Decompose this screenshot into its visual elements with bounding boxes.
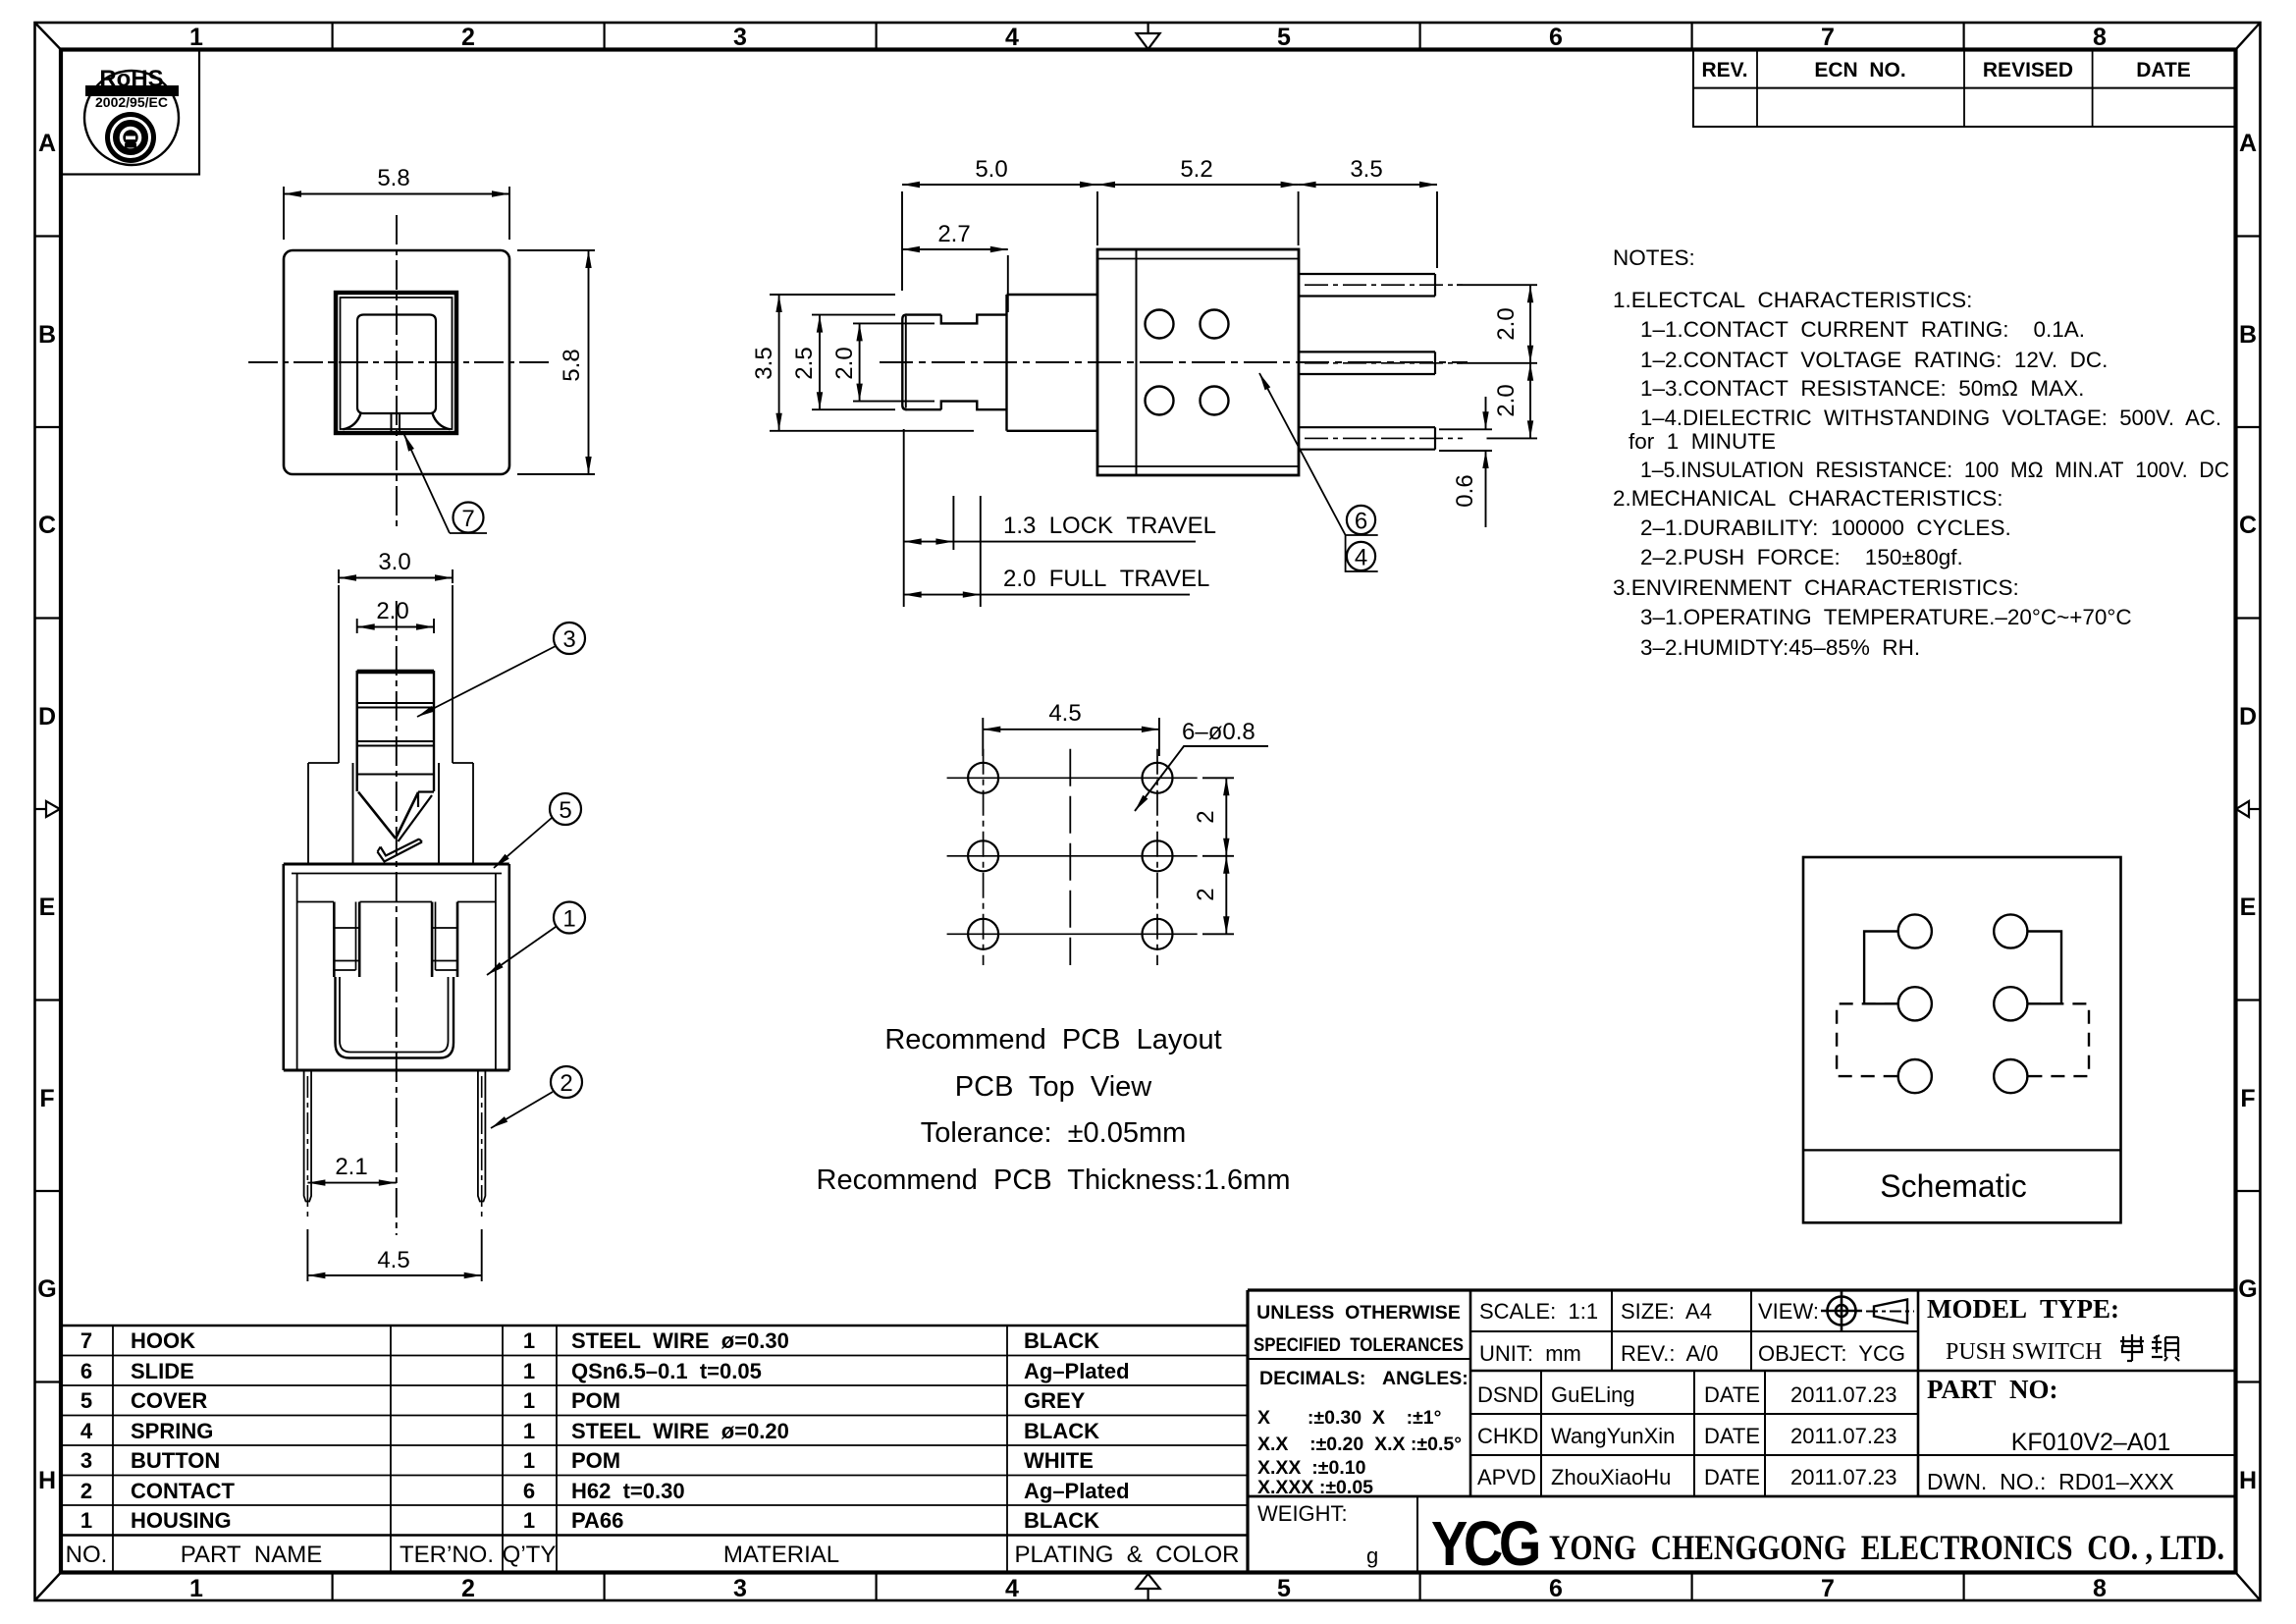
pcb column centerline right [1156, 749, 1158, 965]
svg-text:5.8: 5.8 [559, 349, 585, 381]
svg-text:X.XX :±0.10: X.XX :±0.10 [1257, 1457, 1366, 1479]
svg-text:8: 8 [2093, 1575, 2107, 1602]
svg-text:PART NAME: PART NAME [181, 1542, 322, 1568]
svg-text:2: 2 [461, 1575, 475, 1602]
svg-text:2: 2 [461, 24, 475, 51]
top view centerline vertical [396, 215, 398, 527]
svg-text:CONTACT: CONTACT [131, 1479, 235, 1503]
svg-text:H: H [2239, 1467, 2257, 1494]
dim 5.8 horizontal [284, 187, 509, 240]
svg-text:CHKD: CHKD [1477, 1424, 1538, 1448]
svg-text:Ag–Plated: Ag–Plated [1024, 1479, 1130, 1503]
corner diagonal top-left [35, 23, 62, 50]
svg-text:POM: POM [571, 1448, 620, 1473]
svg-text:3.5: 3.5 [751, 347, 777, 379]
svg-text:REV.: A/0: REV.: A/0 [1621, 1341, 1718, 1366]
housing top interior line [297, 901, 496, 903]
svg-text:TER’NO.: TER’NO. [400, 1542, 494, 1568]
svg-text:3.5: 3.5 [1350, 156, 1382, 183]
neck walls [308, 763, 473, 863]
RoHS inner emblem [105, 112, 156, 163]
svg-text:2: 2 [1193, 810, 1219, 823]
svg-text:2.5: 2.5 [791, 347, 818, 379]
svg-text:PUSH SWITCH: PUSH SWITCH [1946, 1339, 2102, 1365]
svg-text:2.0: 2.0 [1493, 384, 1520, 416]
svg-text:3.ENVIRENMENT CHARACTERISTICS: 3.ENVIRENMENT CHARACTERISTICS: [1613, 575, 2019, 600]
housing outline top view [284, 250, 509, 474]
svg-text:BLACK: BLACK [1024, 1328, 1099, 1353]
pcb middle centerline [1069, 749, 1071, 965]
balloon 3 [554, 623, 585, 654]
svg-text:YCG: YCG [1431, 1508, 1538, 1579]
svg-text:WHITE: WHITE [1024, 1448, 1094, 1473]
top centering mark [1137, 23, 1160, 49]
balloon 6 4 leader [1259, 373, 1378, 571]
svg-text:C: C [38, 512, 56, 539]
revision table [1693, 50, 2235, 128]
svg-text:F: F [2240, 1085, 2255, 1112]
svg-text:Tolerance: ±0.05mm: Tolerance: ±0.05mm [921, 1117, 1187, 1149]
svg-text:B: B [38, 321, 56, 349]
svg-text:ANGLES:: ANGLES: [1382, 1368, 1468, 1389]
svg-text:1: 1 [562, 906, 575, 933]
svg-text:1–1.CONTACT CURRENT RATING:: 1–1.CONTACT CURRENT RATING: 0.1A. [1640, 317, 2085, 342]
svg-text:1: 1 [523, 1419, 535, 1443]
svg-text:3–2.HUMIDTY:45–85% RH.: 3–2.HUMIDTY:45–85% RH. [1640, 635, 1920, 660]
svg-text:DECIMALS:: DECIMALS: [1259, 1368, 1365, 1389]
svg-text:BLACK: BLACK [1024, 1419, 1099, 1443]
right centering mark [2236, 801, 2261, 817]
svg-text:BLACK: BLACK [1024, 1508, 1099, 1533]
svg-text:WEIGHT:: WEIGHT: [1257, 1501, 1348, 1526]
svg-text:1–2.CONTACT VOLTAGE RATING:: 1–2.CONTACT VOLTAGE RATING: 12V. DC. [1640, 348, 2108, 372]
svg-text:DWN. NO.: RD01–XXX: DWN. NO.: RD01–XXX [1927, 1469, 2174, 1494]
svg-text:6: 6 [1355, 509, 1367, 535]
button top cap [357, 670, 434, 675]
svg-text:E: E [39, 893, 56, 921]
svg-text:2.0: 2.0 [376, 598, 408, 624]
housing bottom [284, 1069, 509, 1072]
svg-text:4: 4 [1355, 545, 1367, 571]
svg-text:VIEW:: VIEW: [1758, 1299, 1819, 1324]
pcb row centerline 2 [947, 855, 1198, 857]
svg-text:3–1.OPERATING TEMPERATURE.–20: 3–1.OPERATING TEMPERATURE.–20°C~+70°C [1640, 605, 2132, 629]
svg-text:Recommend PCB Thickness:1.6m: Recommend PCB Thickness:1.6mm [817, 1164, 1291, 1196]
pin 3 side [1299, 427, 1435, 450]
bottom zone ticks [333, 1573, 1964, 1600]
pcb row centerline 3 [947, 933, 1198, 935]
svg-text:DSND: DSND [1477, 1382, 1538, 1407]
svg-text:7: 7 [1821, 24, 1835, 51]
svg-text:2.0: 2.0 [831, 347, 858, 379]
pcb hole A2 [968, 840, 998, 871]
plunger neck [1007, 295, 1098, 431]
svg-text:E: E [2240, 893, 2257, 921]
wire 1-3 solid [1864, 932, 1898, 1004]
svg-text:MODEL TYPE:: MODEL TYPE: [1927, 1294, 2119, 1324]
svg-text:2011.07.23: 2011.07.23 [1790, 1465, 1896, 1489]
svg-text:2: 2 [560, 1070, 572, 1097]
corner diagonal bottom-left [35, 1573, 62, 1601]
housing inner walls [297, 874, 496, 1071]
svg-text:3: 3 [80, 1448, 92, 1473]
svg-text:PLATING & COLOR: PLATING & COLOR [1015, 1542, 1240, 1568]
svg-text:1: 1 [189, 1575, 203, 1602]
svg-text:4: 4 [1005, 1575, 1019, 1602]
svg-text:4: 4 [1005, 24, 1019, 51]
svg-text:2.7: 2.7 [937, 221, 970, 247]
svg-text:5.0: 5.0 [975, 156, 1007, 183]
svg-text:6: 6 [1549, 1575, 1563, 1602]
svg-text:DATE: DATE [1704, 1465, 1760, 1489]
right pin front [478, 1070, 486, 1202]
corner diagonal top-right [2236, 23, 2261, 50]
top dims 5.0 5.2 3.5 [902, 185, 1437, 291]
svg-text:B: B [2239, 321, 2257, 349]
svg-text:OBJECT: YCG: OBJECT: YCG [1758, 1341, 1905, 1366]
svg-text:SCALE: 1:1: SCALE: 1:1 [1479, 1299, 1598, 1324]
svg-text:PA66: PA66 [571, 1508, 623, 1533]
svg-text:4.5: 4.5 [1048, 700, 1081, 727]
svg-text:NO.: NO. [66, 1542, 108, 1568]
svg-text:1.ELECTCAL CHARACTERISTICS:: 1.ELECTCAL CHARACTERISTICS: [1613, 288, 1972, 312]
svg-text:HOUSING: HOUSING [131, 1508, 232, 1533]
RoHS black band [85, 85, 179, 96]
plunger cap [906, 315, 941, 410]
button outer square inner offset line [341, 298, 453, 429]
svg-text:ZhouXiaoHu: ZhouXiaoHu [1551, 1465, 1671, 1489]
schematic pin 5 [1898, 1059, 1932, 1093]
svg-text:2.0 FULL TRAVEL: 2.0 FULL TRAVEL [1003, 566, 1209, 592]
view symbol first angle [1821, 1290, 1862, 1331]
svg-text:QSn6.5–0.1 t=0.05: QSn6.5–0.1 t=0.05 [571, 1359, 762, 1383]
U channel [336, 977, 454, 1058]
svg-text:H: H [38, 1467, 56, 1494]
title block outline [1248, 1288, 2236, 1291]
top view centerline horizontal [248, 361, 550, 363]
pcb dim 2 upper [1202, 778, 1234, 934]
svg-text:1: 1 [189, 24, 203, 51]
svg-text:2: 2 [80, 1479, 92, 1503]
svg-text:6: 6 [523, 1479, 535, 1503]
svg-text:STEEL WIRE ø=0.20: STEEL WIRE ø=0.20 [571, 1419, 789, 1443]
svg-text:4.5: 4.5 [377, 1247, 409, 1273]
svg-text:A: A [38, 130, 56, 157]
balloon 2 leader [491, 1092, 553, 1128]
svg-text:SIZE: A4: SIZE: A4 [1621, 1299, 1712, 1324]
svg-text:STEEL WIRE ø=0.30: STEEL WIRE ø=0.30 [571, 1328, 789, 1353]
right contact slot [432, 902, 457, 978]
svg-text:2.0: 2.0 [1493, 307, 1520, 340]
svg-text:A: A [2239, 130, 2257, 157]
balloon 5 [550, 793, 581, 825]
svg-text:YONG CHENGGONG ELECTRONICS: YONG CHENGGONG ELECTRONICS CO. , LTD. [1549, 1528, 2224, 1567]
left pin front [304, 1070, 312, 1202]
contact rivets [1146, 310, 1174, 339]
svg-text:SPECIFIED TOLERANCES: SPECIFIED TOLERANCES [1254, 1334, 1464, 1356]
pin 1 side [1299, 274, 1435, 297]
svg-text:UNIT: mm: UNIT: mm [1479, 1341, 1581, 1366]
svg-text:5: 5 [1277, 1575, 1291, 1602]
svg-text:1–5.INSULATION RESISTANCE: 1: 1–5.INSULATION RESISTANCE: 100 MΩ MIN.AT… [1640, 458, 2229, 482]
RoHS logo circle [84, 71, 179, 165]
left zone ticks [35, 237, 62, 1382]
hook notch bottom center [392, 413, 400, 432]
svg-text:3: 3 [733, 1575, 747, 1602]
svg-text:H62 t=0.30: H62 t=0.30 [571, 1479, 685, 1503]
svg-text:G: G [2238, 1275, 2257, 1303]
svg-text:7: 7 [80, 1328, 92, 1353]
svg-text:2: 2 [1193, 888, 1219, 900]
dim 5.8 vertical [517, 250, 595, 474]
housing outer walls [284, 864, 509, 1070]
svg-text:GREY: GREY [1024, 1388, 1086, 1413]
svg-text:0.6: 0.6 [1452, 474, 1478, 507]
balloon 1 [554, 902, 585, 934]
corner diagonal bottom-right [2236, 1573, 2261, 1601]
view symbol cone [1874, 1300, 1907, 1324]
travel extension lines [904, 429, 981, 607]
svg-text:5.8: 5.8 [377, 165, 409, 191]
svg-text:g: g [1366, 1543, 1378, 1568]
svg-text:GuELing: GuELing [1551, 1382, 1635, 1407]
svg-text:1: 1 [523, 1388, 535, 1413]
svg-text:POM: POM [571, 1388, 620, 1413]
svg-text:1: 1 [80, 1508, 92, 1533]
dim 2.0 [357, 619, 434, 633]
balloon 3 leader [417, 646, 556, 717]
button grooves [357, 703, 434, 775]
svg-text:SLIDE: SLIDE [131, 1359, 194, 1383]
pcb row centerline 1 [947, 777, 1198, 779]
pcb caption [817, 1024, 1291, 1196]
schematic pin 4 [1994, 987, 2027, 1020]
pcb hole B1 [1143, 763, 1173, 793]
svg-text:G: G [37, 1275, 56, 1303]
svg-text:X.XXX :±0.05: X.XXX :±0.05 [1257, 1477, 1373, 1498]
pcb column centerline left [983, 749, 985, 965]
button shaft side lines [357, 671, 434, 791]
svg-text:5: 5 [1277, 24, 1291, 51]
pcb hole A3 [968, 919, 998, 949]
schematic pin 6 [1994, 1059, 2027, 1093]
spring check hook [378, 842, 423, 862]
svg-text:UNLESS OTHERWISE: UNLESS OTHERWISE [1256, 1302, 1461, 1324]
svg-text:DATE: DATE [2136, 59, 2191, 81]
svg-text:Schematic: Schematic [1880, 1168, 2026, 1204]
front view centerline [396, 601, 398, 1235]
svg-text:1–4.DIELECTRIC WITHSTANDING: 1–4.DIELECTRIC WITHSTANDING VOLTAGE: 500… [1640, 406, 2221, 430]
svg-text:2011.07.23: 2011.07.23 [1790, 1382, 1896, 1407]
side view centerline [880, 361, 1468, 363]
svg-text:1: 1 [523, 1448, 535, 1473]
parts list grid [61, 1325, 1248, 1327]
svg-text:COVER: COVER [131, 1388, 207, 1413]
svg-text:1: 1 [523, 1359, 535, 1383]
button outer square (thick) [336, 293, 456, 433]
balloon 5 leader [494, 818, 552, 868]
pcb dim 4.5 [983, 718, 1159, 756]
svg-text:5.2: 5.2 [1180, 156, 1212, 183]
left contact slot [334, 902, 359, 978]
balloon 7 [454, 503, 484, 533]
balloon 1 leader [487, 927, 556, 975]
svg-text:WangYunXin: WangYunXin [1551, 1424, 1675, 1448]
svg-text:1–3.CONTACT RESISTANCE: 50mΩ: 1–3.CONTACT RESISTANCE: 50mΩ MAX. [1640, 376, 2084, 401]
balloon 2 [551, 1066, 582, 1098]
balloon 6 [1347, 506, 1375, 534]
svg-text:APVD: APVD [1477, 1465, 1536, 1489]
svg-text:3: 3 [733, 24, 747, 51]
svg-text:MATERIAL: MATERIAL [723, 1542, 839, 1568]
dim 0.6 [1439, 397, 1492, 527]
dim 3.0 [339, 569, 453, 583]
plunger lock notch top [941, 315, 1007, 324]
ycg logo [1431, 1508, 1538, 1579]
balloon 7 leader [404, 434, 488, 533]
svg-text:5: 5 [80, 1388, 92, 1413]
plunger lock notch bottom [941, 402, 1007, 410]
2.0 full travel dim [904, 594, 981, 596]
button inner bottom flares [344, 413, 361, 429]
svg-text:3.0: 3.0 [378, 549, 410, 575]
svg-text:C: C [2239, 512, 2257, 539]
svg-text:5: 5 [559, 797, 571, 824]
svg-text:2–2.PUSH FORCE: 150±80gf.: 2–2.PUSH FORCE: 150±80gf. [1640, 545, 1963, 569]
left dims 3.5 2.5 2.0 [770, 295, 974, 431]
svg-text:NOTES:: NOTES: [1613, 245, 1695, 270]
svg-text:DATE: DATE [1704, 1424, 1760, 1448]
svg-text:6: 6 [1549, 24, 1563, 51]
RoHS logo box [61, 50, 199, 175]
svg-text:6–ø0.8: 6–ø0.8 [1182, 719, 1255, 745]
svg-text:1: 1 [523, 1508, 535, 1533]
svg-text:Q’TY: Q’TY [503, 1542, 557, 1568]
svg-text:X.X :±0.20 X.X :±0.5°: X.X :±0.20 X.X :±0.5° [1257, 1434, 1462, 1455]
svg-text:REVISED: REVISED [1983, 59, 2073, 81]
dim 4.5 [307, 1229, 481, 1281]
svg-text:2.1: 2.1 [335, 1154, 367, 1180]
right dims 2.0 2.0 [1457, 285, 1537, 438]
switch body [1097, 249, 1299, 475]
wire 4-6 dashed [2027, 1003, 2089, 1076]
svg-text:Recommend PCB Layout: Recommend PCB Layout [884, 1024, 1221, 1056]
svg-text:PCB Top View: PCB Top View [955, 1071, 1152, 1103]
svg-text:REV.: REV. [1701, 59, 1747, 81]
pcb hole A1 [968, 763, 998, 793]
pin 2 side [1299, 352, 1435, 374]
schematic pin 1 [1898, 914, 1932, 947]
svg-text:2–1.DURABILITY: 100000 CYCLE: 2–1.DURABILITY: 100000 CYCLES. [1640, 515, 2011, 540]
svg-text:KF010V2–A01: KF010V2–A01 [2011, 1429, 2171, 1456]
svg-text:HOOK: HOOK [131, 1328, 195, 1353]
cover top plate [284, 863, 509, 866]
bottom centering mark [1137, 1574, 1160, 1600]
dim 2.7 [902, 249, 1008, 312]
svg-text:PART NO:: PART NO: [1927, 1375, 2058, 1404]
svg-text:2.MECHANICAL CHARACTERISTICS:: 2.MECHANICAL CHARACTERISTICS: [1613, 486, 2003, 511]
svg-text:4: 4 [80, 1419, 93, 1443]
pcb hole B2 [1143, 840, 1173, 871]
svg-text:Ag–Plated: Ag–Plated [1024, 1359, 1130, 1383]
button inner square [357, 315, 436, 414]
svg-text:BUTTON: BUTTON [131, 1448, 220, 1473]
schematic pin 2 [1994, 914, 2027, 947]
neck step [308, 762, 473, 764]
balloon 4 [1347, 542, 1375, 570]
right zone ticks [2236, 237, 2261, 1382]
plunger shoulder [1005, 295, 1007, 431]
dim 2.1 [307, 1182, 396, 1184]
pcb hole B3 [1143, 919, 1173, 949]
svg-text:D: D [38, 703, 56, 731]
1.3 lock travel dim [904, 541, 954, 543]
schematic box [1803, 857, 2121, 1222]
spring V [358, 792, 396, 839]
svg-text:2002/95/EC: 2002/95/EC [95, 94, 168, 110]
svg-text:8: 8 [2093, 24, 2107, 51]
svg-text:1: 1 [523, 1328, 535, 1353]
svg-text:D: D [2239, 703, 2257, 731]
svg-text:ECN NO.: ECN NO. [1814, 59, 1905, 81]
svg-text:7: 7 [461, 506, 474, 532]
svg-text:2011.07.23: 2011.07.23 [1790, 1424, 1896, 1448]
wire 3-5 dashed [1837, 1003, 1898, 1076]
top zone ticks [333, 23, 1964, 49]
svg-text:X :±0.30 X :±1°: X :±0.30 X :±1° [1257, 1407, 1441, 1429]
svg-text:DATE: DATE [1704, 1382, 1760, 1407]
svg-text:1.3 LOCK TRAVEL: 1.3 LOCK TRAVEL [1003, 513, 1216, 539]
svg-text:F: F [39, 1085, 54, 1112]
schematic pin 3 [1898, 987, 1932, 1020]
wire 2-4 solid [2027, 932, 2061, 1004]
svg-text:7: 7 [1821, 1575, 1835, 1602]
neck inner thin lines [353, 763, 440, 863]
svg-text:3: 3 [562, 626, 575, 653]
stem guide tube walls [339, 585, 453, 763]
svg-text:6: 6 [80, 1359, 92, 1383]
svg-text:SPRING: SPRING [131, 1419, 213, 1443]
svg-text:for 1 MINUTE: for 1 MINUTE [1629, 429, 1776, 454]
left centering mark [35, 801, 61, 817]
